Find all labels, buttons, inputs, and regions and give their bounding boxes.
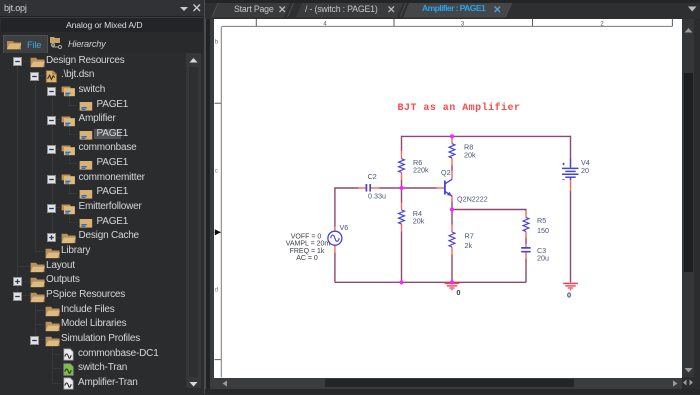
tab bar right dropdown xyxy=(687,5,698,13)
label V6 parameters xyxy=(286,233,331,262)
svg-text:AC = 0: AC = 0 xyxy=(296,255,318,262)
wire C2 to base node xyxy=(379,187,401,189)
wire R5 to C3 xyxy=(525,238,527,244)
wire V6 vertical top xyxy=(334,188,336,227)
svg-text:VAMPL = 20m: VAMPL = 20m xyxy=(286,241,331,248)
wire node to R7 xyxy=(451,210,453,225)
label C3 value xyxy=(537,246,549,263)
svg-text:d: d xyxy=(215,286,219,293)
wire base node to Q2 xyxy=(402,187,437,189)
header band xyxy=(1,17,203,33)
svg-text:V6: V6 xyxy=(340,223,349,232)
pin C3 top xyxy=(525,244,527,247)
right and bottom outer bands xyxy=(694,19,700,394)
tree area xyxy=(1,53,186,388)
resistor R7 xyxy=(449,232,455,247)
svg-text:0: 0 xyxy=(456,288,460,297)
label Q2N2222 xyxy=(457,194,488,203)
title bar dropdown arrow xyxy=(179,5,191,12)
wire R8 to Q2 collector xyxy=(451,166,453,171)
ruler tick marks xyxy=(215,19,673,360)
svg-text:C2: C2 xyxy=(368,172,377,181)
svg-text:0: 0 xyxy=(567,290,571,299)
pin R8 bottom xyxy=(451,158,453,166)
capacitor C3 xyxy=(521,248,530,252)
wire V6 top to C2 xyxy=(335,187,359,190)
svg-text:b: b xyxy=(215,38,219,45)
tab 1: Start Page xyxy=(212,3,290,18)
pin R4 top xyxy=(401,203,403,211)
junction node emitter xyxy=(450,207,454,211)
label R4 value xyxy=(413,209,425,226)
panel title bar xyxy=(0,0,204,17)
wire base node to R4 xyxy=(401,188,403,203)
label V4 value xyxy=(581,158,590,175)
pin C2 right xyxy=(371,187,379,189)
tab 2: switch page xyxy=(296,3,403,18)
svg-text:220k: 220k xyxy=(413,165,429,174)
pin R7 top xyxy=(451,225,453,233)
junction node base xyxy=(399,186,403,190)
splitter between panel and schematic xyxy=(204,0,206,394)
wire emitter node to R5 branch xyxy=(452,210,526,211)
wire top rail to V4 xyxy=(570,136,572,159)
svg-text:0.33u: 0.33u xyxy=(368,192,386,201)
resistor R5 xyxy=(523,218,529,232)
ruler numbers xyxy=(323,21,604,27)
tab 3: Amplifier : PAGE1 (active) xyxy=(403,3,511,18)
sheet border xyxy=(221,26,672,377)
label C2 value xyxy=(368,172,386,200)
svg-text:FREQ = 1k: FREQ = 1k xyxy=(290,248,325,255)
wire V6 vertical bottom xyxy=(334,253,336,283)
pin V4 bottom xyxy=(570,180,572,191)
pin C3 bottom xyxy=(525,252,527,259)
label Q2 xyxy=(441,168,451,177)
svg-text:VOFF = 0: VOFF = 0 xyxy=(291,233,322,240)
wire Q2 emitter to node xyxy=(451,202,453,210)
pin R7 bottom xyxy=(451,247,453,255)
wire top rail xyxy=(402,135,571,137)
pin V6 top xyxy=(334,227,336,231)
pin R6 top xyxy=(401,151,403,158)
svg-text:20: 20 xyxy=(581,166,589,175)
wire V4 to ground xyxy=(570,191,572,282)
title bar close x xyxy=(192,3,202,13)
source V6 xyxy=(328,231,342,245)
pin Q2 emitter xyxy=(451,196,453,201)
label ground 0 (V4) xyxy=(567,290,571,299)
pin R5 top xyxy=(525,211,527,218)
pin R4 bottom xyxy=(401,224,403,232)
svg-text:2k: 2k xyxy=(465,241,473,250)
right scrollbar of schematic xyxy=(682,19,694,377)
junction node bottom rail / ground xyxy=(450,280,454,284)
resistor R8 xyxy=(449,144,455,158)
pin V6 bottom xyxy=(334,245,336,252)
svg-text:Q2: Q2 xyxy=(441,168,451,177)
svg-text:150: 150 xyxy=(537,226,549,235)
resistor R6 xyxy=(399,159,405,173)
label R5 value xyxy=(537,216,549,235)
ground at V4 xyxy=(563,283,578,289)
margin letters xyxy=(215,38,219,293)
svg-text:BJT as an Amplifier: BJT as an Amplifier xyxy=(398,102,521,114)
pin R8 top xyxy=(451,136,453,143)
svg-text:20k: 20k xyxy=(413,217,425,226)
corner pane splitter arrows xyxy=(682,378,696,387)
wire top-left drop to R6 xyxy=(401,136,403,152)
svg-text:R5: R5 xyxy=(537,216,546,225)
margin pointer xyxy=(215,229,221,235)
svg-text:Q2N2222: Q2N2222 xyxy=(457,194,488,203)
label R8 value xyxy=(464,143,476,160)
label V6 xyxy=(340,223,349,232)
pin R5 bottom xyxy=(525,232,527,239)
label ground 0 (emitter branch) xyxy=(456,288,460,297)
resistor R4 xyxy=(399,210,405,224)
ground at emitter branch xyxy=(445,283,460,289)
source V4 xyxy=(562,159,579,181)
svg-text:R7: R7 xyxy=(465,231,474,240)
svg-text:20u: 20u xyxy=(537,253,549,262)
wire C3 to bottom rail xyxy=(525,259,527,282)
junction node top rail / R8 xyxy=(450,134,454,138)
pin Q2 collector xyxy=(451,171,453,179)
svg-text:c: c xyxy=(215,167,219,174)
label R7 value xyxy=(465,231,474,250)
wire R6 to base node xyxy=(401,180,403,188)
bottom scrollbar of schematic xyxy=(214,378,682,389)
wire bottom rail xyxy=(335,281,526,283)
wire R7 to ground node xyxy=(451,255,453,283)
pin R6 bottom xyxy=(401,173,403,181)
File / Hierarchy tab row xyxy=(1,32,203,53)
label R6 value xyxy=(413,158,429,174)
junction node bottom rail / R4 xyxy=(399,280,403,284)
tree scrollbar xyxy=(186,53,201,388)
pin C2 left xyxy=(359,187,366,189)
transistor Q2 xyxy=(445,179,452,196)
svg-text:20k: 20k xyxy=(464,151,476,160)
wire R4 to bottom rail xyxy=(401,232,403,283)
capacitor C2 xyxy=(366,184,370,192)
pin Q2 base xyxy=(437,187,445,189)
